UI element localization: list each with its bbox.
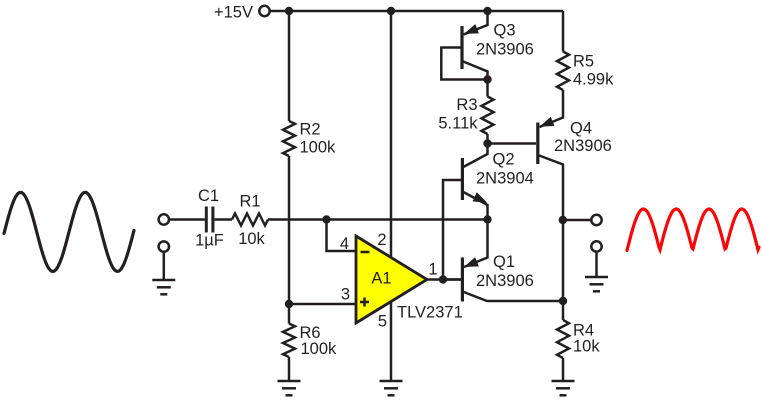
wire pin3 node to R6 xyxy=(288,304,291,324)
Q3 collector xyxy=(462,61,488,80)
ground (op-amp pin 5) xyxy=(380,380,403,383)
node: signal to op-amp pin 4 junction xyxy=(322,215,330,223)
wire output junction to terminal xyxy=(563,219,591,222)
Q2 emitter xyxy=(462,192,487,220)
wire rail to R2 xyxy=(288,11,291,121)
svg-text:4.99k: 4.99k xyxy=(573,71,614,89)
Q4 collector xyxy=(538,155,563,220)
ground (R6) xyxy=(278,380,301,383)
op-amp minus input marker xyxy=(361,251,370,254)
capacitor C1 xyxy=(205,207,208,233)
wire Q1 base from op-amp output node xyxy=(443,278,461,281)
node: Q1 collector / R4 junction xyxy=(559,297,567,305)
input sine wave graphic xyxy=(4,192,134,271)
wire Q1 emitter from signal node xyxy=(464,220,488,268)
wire Q3 base tied to collector xyxy=(441,48,487,80)
wire op-amp output xyxy=(427,278,461,281)
transistor Q2 bar xyxy=(461,158,464,200)
resistor R2 xyxy=(283,121,295,156)
svg-text:Q4: Q4 xyxy=(570,120,592,138)
+15V terminal xyxy=(259,6,269,16)
wire R2 to pin3 node xyxy=(288,156,291,304)
wire junction to Q4 base xyxy=(488,142,537,145)
resistor R3 xyxy=(482,97,494,135)
svg-text:Q3: Q3 xyxy=(494,22,516,40)
svg-text:+15V: +15V xyxy=(214,4,253,22)
ground (output) xyxy=(585,276,608,279)
wire pin3 node to op-amp + input xyxy=(289,303,356,306)
Q2 collector xyxy=(462,144,487,168)
svg-text:R5: R5 xyxy=(573,53,594,71)
node: pin 3 junction xyxy=(285,300,293,308)
output rectified wave graphic xyxy=(627,209,759,251)
svg-text:A1: A1 xyxy=(371,270,391,288)
svg-text:R1: R1 xyxy=(239,193,260,211)
wire op-amp pin 5 to ground xyxy=(390,302,393,382)
node: rail to R2 xyxy=(285,7,293,15)
wire R3 bottom xyxy=(486,134,489,144)
wire rail corner to R5 xyxy=(562,11,565,52)
svg-text:2N3906: 2N3906 xyxy=(476,272,534,290)
svg-text:1: 1 xyxy=(428,261,437,279)
svg-text:10k: 10k xyxy=(573,338,600,356)
wire output node down to R4 xyxy=(562,220,565,320)
svg-text:2: 2 xyxy=(377,231,386,249)
svg-text:100k: 100k xyxy=(301,340,338,358)
output terminal lower xyxy=(591,241,601,251)
node: R3 / Q2 collector / Q4 base junction xyxy=(483,139,491,147)
Q3 emitter from rail xyxy=(464,11,488,35)
Q4 emitter arrow xyxy=(540,117,555,127)
node: Q3 collector/base junction xyxy=(483,75,491,83)
svg-text:5: 5 xyxy=(378,313,387,331)
Q3 emitter arrow xyxy=(464,24,479,34)
wire input terminal to C1 xyxy=(169,218,205,221)
input terminal upper xyxy=(159,214,169,224)
node: rail to Q3 emitter xyxy=(483,7,491,15)
wire lower terminal to ground xyxy=(163,252,166,280)
wire C1 to R1 xyxy=(214,218,232,221)
wire junction down and right to op-amp pin 4 xyxy=(327,220,357,252)
input terminal lower xyxy=(159,241,169,251)
svg-text:TLV2371: TLV2371 xyxy=(397,304,463,322)
Q2 emitter arrow xyxy=(473,192,488,203)
ground (input) xyxy=(152,279,175,282)
wire output node up to Q2 base xyxy=(443,180,461,280)
Q1 emitter arrow xyxy=(464,257,479,267)
resistor R4 xyxy=(557,320,569,358)
svg-text:100k: 100k xyxy=(300,139,337,157)
wire R5 to Q4 emitter xyxy=(540,90,564,127)
resistor R5 xyxy=(557,52,569,91)
wire R6 to ground xyxy=(288,357,291,381)
op-amp plus input marker xyxy=(360,301,369,304)
transistor Q4 bar xyxy=(536,123,539,165)
svg-text:Q2: Q2 xyxy=(493,151,515,169)
node: op-amp output junction xyxy=(439,275,447,283)
svg-text:2N3904: 2N3904 xyxy=(476,170,534,188)
svg-text:3: 3 xyxy=(341,286,350,304)
Q1 collector xyxy=(462,292,563,302)
wire R4 to ground xyxy=(562,358,565,381)
transistor Q1 bar xyxy=(461,258,464,302)
wire op-amp V+ pin 2 to rail xyxy=(390,11,393,257)
svg-text:C1: C1 xyxy=(198,187,219,205)
node: Q2 emitter / signal junction xyxy=(483,215,491,223)
svg-text:2N3906: 2N3906 xyxy=(476,41,534,59)
svg-text:10k: 10k xyxy=(238,230,265,248)
svg-text:R3: R3 xyxy=(456,96,477,114)
wire R3 top to Q3 node xyxy=(486,80,489,97)
output terminal upper xyxy=(591,215,601,225)
svg-text:R2: R2 xyxy=(300,121,321,139)
wire lower output terminal to ground xyxy=(595,252,598,277)
resistor R1 xyxy=(232,214,268,226)
resistor R6 xyxy=(283,324,295,358)
svg-text:1µF: 1µF xyxy=(195,232,224,250)
svg-text:2N3906: 2N3906 xyxy=(554,137,612,155)
transistor Q3 bar xyxy=(460,26,463,69)
svg-text:Q1: Q1 xyxy=(493,253,515,271)
wire signal line R1 to Q1/Q2 emitters xyxy=(268,218,488,221)
node: rail to op-amp V+ xyxy=(387,7,395,15)
svg-text:5.11k: 5.11k xyxy=(438,115,478,133)
svg-text:4: 4 xyxy=(340,235,349,253)
wire +15V rail xyxy=(270,10,563,13)
ground (R4) xyxy=(552,380,575,383)
op-amp A1 body xyxy=(356,236,427,323)
node: output junction xyxy=(559,216,567,224)
